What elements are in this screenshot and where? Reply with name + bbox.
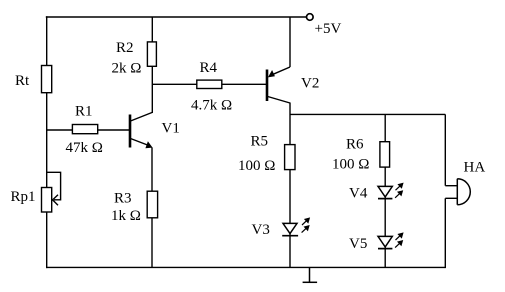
svg-text:4.7k Ω: 4.7k Ω bbox=[191, 98, 232, 114]
wire R2 branch / V1 collector riser bbox=[151, 17, 153, 113]
svg-text:2k Ω: 2k Ω bbox=[112, 61, 142, 77]
resistor Rt bbox=[15, 66, 52, 93]
svg-text:+5V: +5V bbox=[315, 21, 342, 37]
resistor R4 bbox=[191, 60, 232, 114]
wire left rail bbox=[46, 16, 48, 268]
potentiometer Rp1 bbox=[11, 172, 61, 212]
svg-text:R1: R1 bbox=[75, 104, 93, 120]
svg-text:Rt: Rt bbox=[15, 73, 30, 89]
transistor V1 bbox=[130, 112, 180, 148]
wire right rail upper bbox=[444, 114, 446, 185]
svg-text:V3: V3 bbox=[252, 222, 270, 238]
LED V3 bbox=[252, 217, 311, 238]
ground bbox=[303, 267, 318, 282]
svg-text:100 Ω: 100 Ω bbox=[332, 157, 369, 173]
resistor R6 bbox=[332, 137, 390, 173]
buzzer HA bbox=[457, 160, 485, 205]
svg-text:V4: V4 bbox=[349, 186, 368, 202]
LED V5 bbox=[349, 232, 404, 252]
svg-text:1k Ω: 1k Ω bbox=[111, 208, 141, 224]
resistor R3 bbox=[111, 191, 158, 225]
svg-text:HA: HA bbox=[464, 160, 486, 176]
wire bottom rail bbox=[46, 266, 445, 268]
resistor R2 bbox=[112, 40, 157, 77]
resistor R5 bbox=[238, 134, 295, 175]
transistor V2 bbox=[267, 67, 319, 103]
wire R1 base branch bbox=[47, 129, 130, 131]
terminal +5V bbox=[307, 14, 342, 37]
wire top rail bbox=[46, 16, 307, 18]
svg-text:R2: R2 bbox=[116, 40, 134, 56]
wire HA bottom stub bbox=[445, 197, 457, 199]
svg-text:R3: R3 bbox=[114, 191, 132, 207]
wire mid horizontal node bbox=[290, 113, 445, 115]
wire R6 V4 V5 chain bbox=[384, 114, 386, 267]
wire HA top stub bbox=[445, 185, 457, 187]
svg-text:R6: R6 bbox=[346, 137, 364, 153]
svg-text:R5: R5 bbox=[251, 134, 269, 150]
resistor R1 bbox=[66, 104, 103, 157]
svg-text:V5: V5 bbox=[349, 236, 367, 252]
wire right rail lower bbox=[444, 198, 446, 268]
wire R4 branch bbox=[152, 83, 266, 85]
svg-text:100 Ω: 100 Ω bbox=[238, 158, 275, 174]
wire V2 collector down through R5 V3 bbox=[289, 103, 291, 268]
svg-text:V1: V1 bbox=[162, 121, 180, 137]
wire V1 emitter to R3 to bottom bbox=[151, 148, 153, 268]
LED V4 bbox=[349, 183, 404, 202]
svg-text:V2: V2 bbox=[301, 76, 319, 92]
wire V2 emitter drop bbox=[289, 17, 291, 67]
svg-text:Rp1: Rp1 bbox=[11, 189, 36, 205]
svg-text:47k Ω: 47k Ω bbox=[66, 140, 103, 156]
svg-text:R4: R4 bbox=[200, 60, 218, 76]
